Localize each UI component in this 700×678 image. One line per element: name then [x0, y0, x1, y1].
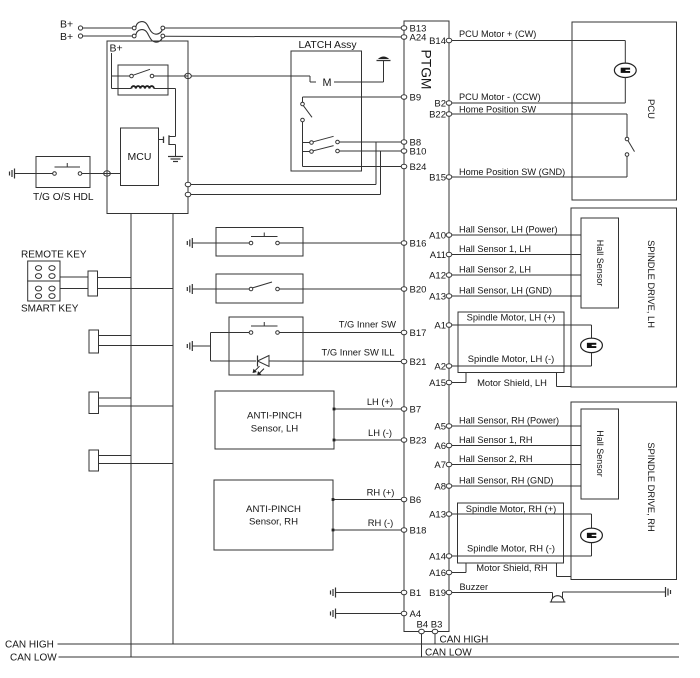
svg-text:B10: B10 — [410, 146, 427, 157]
svg-text:Motor Shield, LH: Motor Shield, LH — [477, 377, 547, 388]
motor shield LH box — [458, 312, 564, 373]
svg-text:B18: B18 — [410, 525, 427, 536]
PTGM pin A14 — [429, 551, 452, 562]
svg-text:Hall Sensor: Hall Sensor — [595, 240, 605, 287]
wire LH+ to PTGM pin B7 — [333, 408, 404, 411]
svg-text:A7: A7 — [434, 460, 446, 471]
wire inner switch to PTGM pin B17 — [279, 332, 404, 334]
PTGM pin A6 — [434, 441, 451, 452]
wire relay coil to Q1 drain — [154, 89, 176, 137]
svg-text:ANTI-PINCH: ANTI-PINCH — [246, 504, 301, 515]
latch switch SW2 — [303, 136, 340, 144]
wire B+ row1 left — [78, 26, 134, 30]
wire latch common to PTGM pin B24 — [303, 166, 405, 168]
svg-text:RH (+): RH (+) — [367, 486, 395, 497]
svg-text:Home Position SW: Home Position SW — [459, 104, 536, 114]
ground switch box 1 — [191, 238, 193, 248]
PTGM pin B2 — [434, 98, 451, 109]
wire A15 to motor shield LH — [452, 373, 466, 383]
wire B4 to CAN LOW — [421, 634, 423, 657]
svg-text:Spindle Motor, RH (+): Spindle Motor, RH (+) — [466, 503, 556, 514]
label anti-pinch LH — [247, 411, 302, 435]
ground B1 — [335, 588, 337, 598]
svg-text:A6: A6 — [434, 441, 446, 452]
svg-text:T/G Inner SW: T/G Inner SW — [339, 319, 396, 330]
wire relay switch to module pin — [154, 75, 188, 77]
PTGM pin A2 — [434, 361, 451, 372]
ground A4 — [335, 609, 337, 619]
hall sensor RH box — [581, 409, 619, 499]
wire connector J3 to CAN bus 1 — [99, 397, 132, 399]
svg-text:A13: A13 — [429, 509, 446, 520]
wire A11 to hall LH — [452, 254, 581, 256]
PTGM pin B21 — [401, 357, 426, 368]
module box (MCU driver unit) — [107, 41, 188, 214]
PTGM pin A16 — [429, 568, 452, 579]
hall sensor LH box — [581, 218, 619, 308]
smart key pad — [28, 281, 60, 301]
wire LED to PTGM pin B21 — [269, 360, 404, 363]
svg-text:Hall Sensor, RH (GND): Hall Sensor, RH (GND) — [459, 475, 553, 485]
svg-text:SPINDLE DRIVE, LH: SPINDLE DRIVE, LH — [646, 240, 656, 328]
PTGM pin A7 — [434, 460, 451, 471]
module right connector pin (relay out) — [185, 73, 192, 78]
wire ground to switch box 2 — [192, 288, 249, 290]
svg-text:B6: B6 — [410, 495, 422, 506]
wire RH- to PTGM pin B18 — [332, 529, 404, 532]
svg-text:Hall Sensor, RH (Power): Hall Sensor, RH (Power) — [459, 415, 559, 425]
wire connector J2 to CAN bus 2 — [99, 345, 174, 347]
PTGM pin B4 — [419, 629, 425, 633]
wire remote key to connector — [60, 276, 88, 278]
svg-text:B+: B+ — [60, 31, 73, 43]
switch box T/G O/S HDL — [36, 157, 90, 188]
wire B+ row1 to PTGM pin B13 — [165, 27, 404, 29]
wire B2 to PCU motor — [452, 77, 626, 103]
svg-text:A11: A11 — [430, 250, 446, 261]
anti-pinch sensor LH box — [215, 391, 334, 449]
svg-text:T/G O/S HDL: T/G O/S HDL — [33, 192, 94, 203]
wire LH- to PTGM pin B23 — [333, 439, 404, 442]
svg-text:B23: B23 — [410, 435, 427, 446]
ground T/G O/S HDL — [14, 169, 16, 179]
wire to inner switch — [211, 332, 250, 334]
PTGM pin A5 — [434, 421, 451, 432]
ground Q1 source — [168, 157, 183, 162]
svg-text:B2: B2 — [434, 98, 446, 109]
PTGM pin B15 — [429, 172, 452, 183]
label anti-pinch RH — [246, 504, 301, 528]
wire switch box 1 to PTGM pin B16 — [279, 242, 404, 244]
ground buzzer — [665, 587, 667, 597]
svg-text:SMART KEY: SMART KEY — [21, 304, 79, 315]
wire relay coil feed — [112, 88, 132, 90]
wire latch motor to ground — [334, 61, 384, 83]
wire connector J3 to CAN bus 2 — [99, 405, 174, 407]
wire B+ row2 to PTGM pin A24 — [165, 35, 404, 38]
relay K1 box — [118, 65, 168, 95]
wire shield LH to spindle frame — [557, 373, 572, 387]
svg-text:Hall Sensor, LH (GND): Hall Sensor, LH (GND) — [459, 285, 552, 295]
svg-text:B20: B20 — [410, 284, 427, 295]
svg-text:B15: B15 — [429, 172, 446, 183]
PTGM pin A24 — [401, 32, 426, 43]
LED D1 — [253, 356, 269, 375]
svg-text:B22: B22 — [429, 109, 446, 120]
wire latch SW2 to PTGM pin B8 — [339, 141, 404, 143]
wire A13 to spindle motor RH — [452, 514, 592, 528]
motor M3 (spindle RH) — [581, 528, 603, 542]
transistor Q1 (MOSFET) — [159, 135, 176, 156]
svg-text:Sensor, LH: Sensor, LH — [251, 424, 299, 435]
svg-text:LH (-): LH (-) — [368, 427, 392, 438]
latch assy box — [291, 51, 362, 171]
wire B22 to home switch — [452, 114, 627, 137]
wire A12 to hall LH — [452, 274, 581, 276]
svg-text:B1: B1 — [410, 588, 422, 599]
motor shield RH box — [458, 503, 564, 563]
ground switch box 2 — [191, 284, 193, 294]
svg-text:Buzzer: Buzzer — [460, 582, 489, 592]
wire CAN HIGH — [58, 643, 680, 645]
svg-text:CAN HIGH: CAN HIGH — [440, 634, 489, 645]
svg-text:Hall Sensor, LH (Power): Hall Sensor, LH (Power) — [459, 224, 558, 234]
PTGM pin B22 — [429, 109, 452, 120]
connector J3 — [89, 392, 99, 414]
svg-text:T/G Inner SW ILL: T/G Inner SW ILL — [322, 347, 395, 358]
wire buzzer to ground — [563, 592, 666, 599]
PTGM pin B13 — [401, 23, 426, 34]
switch box 1 — [216, 228, 303, 257]
wire shield RH to spindle frame — [557, 563, 572, 577]
wire ground to PTGM pin B1 — [336, 592, 405, 594]
wire B14 to PCU motor — [452, 41, 626, 64]
svg-text:B21: B21 — [410, 357, 427, 368]
switch T/G inner (push) — [249, 331, 253, 335]
wire ground to T/G inner — [192, 333, 210, 362]
wire latch switch common — [302, 122, 304, 167]
svg-text:RH (-): RH (-) — [368, 517, 394, 528]
relay K1 coil — [131, 86, 154, 88]
svg-text:Hall Sensor 2, LH: Hall Sensor 2, LH — [459, 264, 531, 274]
chassis ground (latch) — [377, 57, 391, 61]
wire A10 to hall LH — [452, 234, 581, 236]
wire A1 to spindle motor LH — [452, 325, 592, 338]
svg-text:CAN LOW: CAN LOW — [425, 647, 472, 658]
wire latch switch to PTGM pin B9 — [303, 97, 405, 102]
svg-text:A24: A24 — [410, 32, 427, 43]
wire A13 to hall LH — [452, 295, 581, 297]
svg-text:B17: B17 — [410, 328, 427, 339]
wire A5 to hall RH — [452, 425, 581, 427]
switch SW (toggle) box 2 — [249, 282, 279, 291]
wire ground to switch box 1 — [192, 242, 249, 244]
PTGM pin A4 — [401, 609, 421, 620]
svg-text:A5: A5 — [434, 421, 446, 432]
svg-text:PCU: PCU — [645, 99, 656, 119]
latch switch SW3 — [303, 146, 340, 154]
PTGM pin B17 — [401, 328, 426, 339]
wire module to latch motor — [191, 76, 316, 82]
svg-text:A15: A15 — [429, 378, 446, 389]
PTGM pin B24 — [401, 162, 426, 173]
PTGM pin A15 — [429, 378, 452, 389]
wire ground to T/G O/S HDL box — [15, 173, 37, 175]
connector J1 — [88, 271, 98, 296]
relay K1 switch — [118, 69, 154, 77]
wire B19 to buzzer — [452, 593, 553, 600]
wire connector J1 to CAN bus 2 — [98, 288, 174, 290]
svg-text:A10: A10 — [429, 230, 446, 241]
PTGM pin A11 — [430, 250, 452, 261]
PTGM pin B10 — [401, 146, 426, 157]
PTGM pin B18 — [401, 525, 426, 536]
svg-text:B4 B3: B4 B3 — [417, 619, 443, 630]
wire B15 to home switch — [452, 156, 627, 177]
PTGM pin B6 — [401, 495, 421, 506]
wire connector J4 to CAN bus 1 — [99, 455, 132, 457]
PTGM pin B20 — [401, 284, 426, 295]
svg-text:B7: B7 — [410, 404, 422, 415]
svg-text:Motor Shield, RH: Motor Shield, RH — [476, 562, 547, 573]
wire B+ drop — [112, 53, 119, 89]
svg-text:PCU Motor - (CCW): PCU Motor - (CCW) — [459, 92, 541, 102]
svg-text:A2: A2 — [434, 361, 446, 372]
anti-pinch sensor RH box — [214, 480, 333, 550]
PTGM pin B7 — [401, 404, 421, 415]
svg-text:M: M — [323, 77, 332, 89]
wire module pin to B8 net — [191, 142, 376, 185]
wire A7 to hall RH — [452, 464, 581, 466]
PCU box — [572, 22, 677, 200]
wire A16 to motor shield RH — [452, 563, 466, 573]
svg-text:Hall Sensor 1, LH: Hall Sensor 1, LH — [459, 244, 531, 254]
PTGM pin A1 — [434, 320, 451, 331]
motor M1 (PCU) — [614, 63, 636, 77]
svg-text:PCU Motor + (CW): PCU Motor + (CW) — [459, 29, 536, 39]
PTGM pin A8 — [434, 481, 451, 492]
wire latch SW3 to PTGM pin B10 — [339, 150, 404, 152]
PTGM pin A13 — [429, 291, 452, 302]
wire RH+ to PTGM pin B6 — [332, 498, 404, 501]
svg-text:Hall Sensor: Hall Sensor — [595, 430, 605, 477]
buzzer BZ1 — [550, 596, 566, 602]
wire B+ row2 left — [78, 34, 134, 38]
PTGM pin B16 — [401, 238, 426, 249]
spindle drive LH box — [571, 208, 677, 387]
svg-text:B+: B+ — [60, 19, 73, 31]
wire module pin to B10 net — [191, 151, 381, 195]
svg-text:A16: A16 — [429, 568, 446, 579]
svg-text:B16: B16 — [410, 238, 427, 249]
PTGM pin A10 — [429, 230, 452, 241]
svg-text:Spindle Motor, LH (-): Spindle Motor, LH (-) — [468, 353, 555, 364]
wire A2 to spindle motor LH — [452, 353, 592, 367]
wire connector J4 to CAN bus 2 — [99, 463, 174, 465]
svg-text:B19: B19 — [429, 588, 446, 599]
svg-text:LATCH Assy: LATCH Assy — [298, 40, 357, 51]
wire connector J1 to CAN bus 1 — [98, 277, 132, 279]
svg-text:PTGM: PTGM — [418, 50, 433, 90]
svg-text:Spindle Motor, RH (-): Spindle Motor, RH (-) — [467, 543, 555, 554]
svg-text:CAN LOW: CAN LOW — [10, 652, 57, 663]
svg-text:SPINDLE DRIVE, RH: SPINDLE DRIVE, RH — [646, 442, 656, 531]
svg-text:CAN HIGH: CAN HIGH — [5, 639, 54, 650]
wire CAN LOW — [59, 656, 680, 658]
svg-text:A1: A1 — [434, 320, 446, 331]
wire connector J2 to CAN bus 1 — [99, 335, 132, 337]
svg-text:Spindle Motor, LH (+): Spindle Motor, LH (+) — [467, 311, 556, 322]
svg-text:B24: B24 — [410, 162, 427, 173]
svg-text:ANTI-PINCH: ANTI-PINCH — [247, 411, 302, 422]
svg-text:B9: B9 — [410, 92, 422, 103]
ground T/G inner — [191, 341, 193, 351]
wire CAN bus 1 (module to CAN LOW) — [130, 214, 132, 658]
svg-text:Sensor, RH: Sensor, RH — [249, 517, 298, 528]
PTGM module box — [404, 21, 449, 632]
PTGM pin B19 — [429, 588, 452, 599]
T/G inner switch box — [229, 317, 303, 375]
svg-text:A14: A14 — [429, 551, 446, 562]
svg-text:Hall Sensor 1, RH: Hall Sensor 1, RH — [459, 435, 533, 445]
fuse F1 — [132, 22, 164, 35]
svg-text:A8: A8 — [434, 481, 446, 492]
svg-text:MCU: MCU — [128, 151, 152, 163]
PTGM pin B23 — [401, 435, 426, 446]
svg-text:Hall Sensor 2, RH: Hall Sensor 2, RH — [459, 454, 533, 464]
svg-text:REMOTE KEY: REMOTE KEY — [21, 250, 87, 261]
PTGM pin B1 — [401, 588, 421, 599]
svg-text:B+: B+ — [110, 43, 123, 55]
switch box 2 — [216, 274, 303, 303]
PTGM pin A12 — [429, 270, 452, 281]
motor M2 (spindle LH) — [581, 338, 603, 352]
PTGM pin B9 — [401, 92, 421, 103]
spindle drive RH box — [571, 402, 677, 580]
wire switch box 2 to PTGM pin B20 — [279, 288, 404, 290]
wire A8 to hall RH — [452, 485, 581, 487]
fuse F2 — [132, 30, 164, 43]
module output pins lower — [185, 182, 191, 196]
module left connector pin — [104, 171, 111, 176]
switch SW (push) box 1 — [249, 241, 253, 245]
wire smart key to connector — [60, 288, 88, 290]
PTGM pin B3 — [432, 629, 438, 633]
svg-text:B14: B14 — [429, 36, 446, 47]
switch home position — [625, 137, 634, 156]
PTGM pin B8 — [401, 137, 421, 148]
wire A14 to spindle motor RH — [452, 543, 592, 557]
connector J4 — [89, 450, 99, 471]
remote key pad — [28, 261, 60, 281]
connector J2 — [89, 330, 99, 353]
wire A6 to hall RH — [452, 445, 581, 447]
wire CAN bus 2 (module to CAN HIGH) — [172, 214, 174, 645]
latch switch SW1 — [301, 102, 312, 122]
wire to LED — [211, 360, 257, 362]
wire ground to PTGM pin A4 — [336, 613, 405, 615]
switch T/G O/S HDL (push) — [36, 163, 82, 175]
PTGM pin B14 — [429, 36, 452, 47]
svg-text:A4: A4 — [410, 609, 422, 620]
svg-text:A12: A12 — [429, 270, 446, 281]
svg-text:Home Position SW (GND): Home Position SW (GND) — [459, 167, 565, 177]
svg-text:A13: A13 — [429, 291, 446, 302]
wire T/G O/S HDL to MCU — [82, 173, 121, 175]
svg-text:LH (+): LH (+) — [367, 396, 393, 407]
MCU U1 box — [121, 128, 159, 186]
wire B3 to CAN HIGH — [434, 634, 436, 644]
PTGM pin A13 — [429, 509, 452, 520]
